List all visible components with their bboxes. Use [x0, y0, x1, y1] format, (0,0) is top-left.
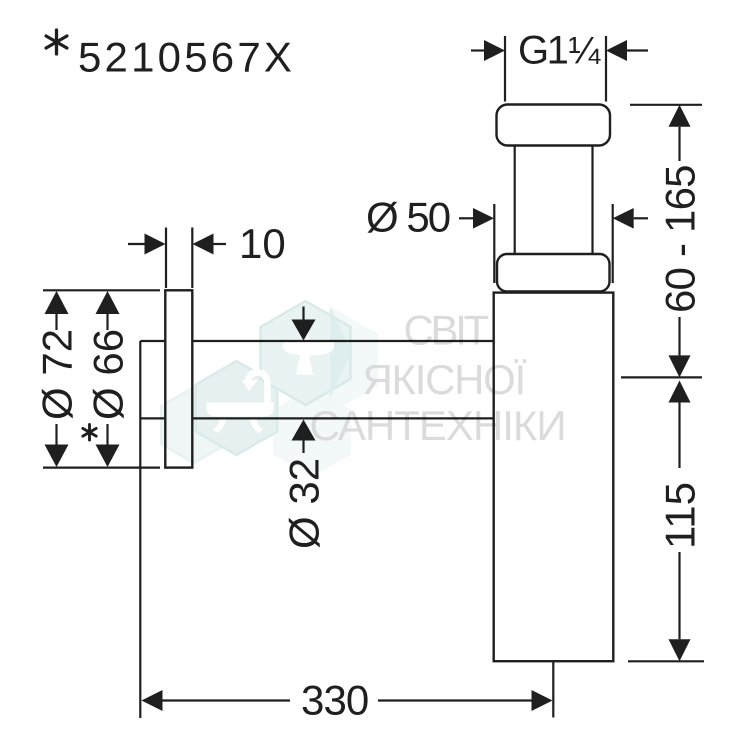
arrow 115 down [669, 639, 691, 661]
arrow 10 right (points left) [193, 234, 214, 255]
waste pipe top edge [140, 340, 493, 342]
dim G1 1/4 left extension line [504, 36, 506, 102]
dim D50 left extension line [493, 204, 495, 283]
right dim top tick [630, 104, 702, 106]
dim D66 lower segment [106, 424, 108, 445]
arrow 115 up [669, 381, 691, 403]
arrow 10 left (points right) [145, 234, 166, 255]
svg-text:СВІТ: СВІТ [404, 307, 489, 354]
arrow D32 up [292, 420, 316, 441]
arrow D72 down [45, 445, 69, 468]
arrow D66 down [96, 445, 120, 468]
dim D50 left lead line [459, 217, 473, 219]
dim G1 1/4 left lead line [471, 49, 484, 51]
dim 10 left lead line [128, 243, 145, 245]
wall plane extension line [139, 341, 141, 718]
watermark overlap wedge [330, 306, 352, 398]
watermark bathtub icon [207, 380, 274, 433]
right dim middle tick [621, 376, 702, 378]
watermark hexagon bathtub [196, 361, 277, 455]
top nut flange [497, 105, 611, 146]
dim 10 left extension line [165, 228, 167, 289]
dim 10 right extension line [191, 228, 193, 289]
right dim bottom tick [628, 660, 704, 662]
dim G1 1/4 right extension line [605, 36, 607, 102]
bottle body [494, 293, 614, 662]
dim D72/D66 top tick [43, 289, 160, 291]
arrow 60-165 down [669, 355, 691, 377]
dim D72/D66 bottom tick [43, 467, 160, 469]
dim D72 upper segment [55, 314, 57, 331]
dim 60-165 lower segment [678, 317, 680, 355]
watermark hexagon small back [161, 387, 227, 463]
watermark hexagon sink [261, 301, 351, 405]
watermark hexagon faint right [288, 308, 378, 412]
dim 10 right lead line [214, 243, 227, 245]
tailpipe right wall [591, 146, 593, 255]
lower nut flange [497, 254, 610, 292]
arrow D32 down [292, 320, 316, 341]
dim D50 right lead line [634, 217, 648, 219]
tailpipe left wall [514, 146, 516, 255]
arrow D66 up [96, 291, 120, 314]
arrow 330 right (points right) [532, 690, 553, 711]
dim D66 upper segment [106, 314, 108, 331]
dim D50 right extension line [612, 204, 614, 283]
asterisk mark top-left [46, 30, 67, 54]
dim G1 1/4 right lead line [627, 49, 648, 51]
asterisk mark near D66 [83, 425, 96, 441]
watermark hexagon faint bottom [273, 387, 351, 477]
dim 115 upper segment [678, 403, 680, 469]
svg-text:САНТЕХНІКИ: САНТЕХНІКИ [310, 402, 566, 449]
dim 330 right segment [378, 699, 532, 701]
arrow G1 1/4 left (points right) [484, 40, 505, 61]
dim D72 lower segment [55, 424, 57, 445]
dim D32 upper stem [302, 307, 304, 320]
arrow 330 left (points left) [142, 690, 163, 711]
dim D32 lower stem [302, 441, 304, 454]
arrow D50 right (points left) [613, 208, 634, 229]
wall flange [165, 290, 192, 467]
watermark shower arm [248, 373, 268, 415]
waste pipe bottom edge [140, 417, 493, 419]
dim 330 left segment [163, 699, 291, 701]
arrow D72 up [45, 291, 69, 314]
svg-text:ЯКІСНОЇ: ЯКІСНОЇ [363, 356, 527, 403]
arrow G1 1/4 right (points left) [606, 40, 627, 61]
watermark sink icon [283, 332, 334, 375]
arrow D50 left (points right) [473, 208, 494, 229]
dim 115 lower segment [678, 552, 680, 639]
bottle centerline extension [552, 661, 554, 718]
dim 60-165 upper segment [678, 127, 680, 161]
arrow 60-165 up [669, 105, 691, 127]
